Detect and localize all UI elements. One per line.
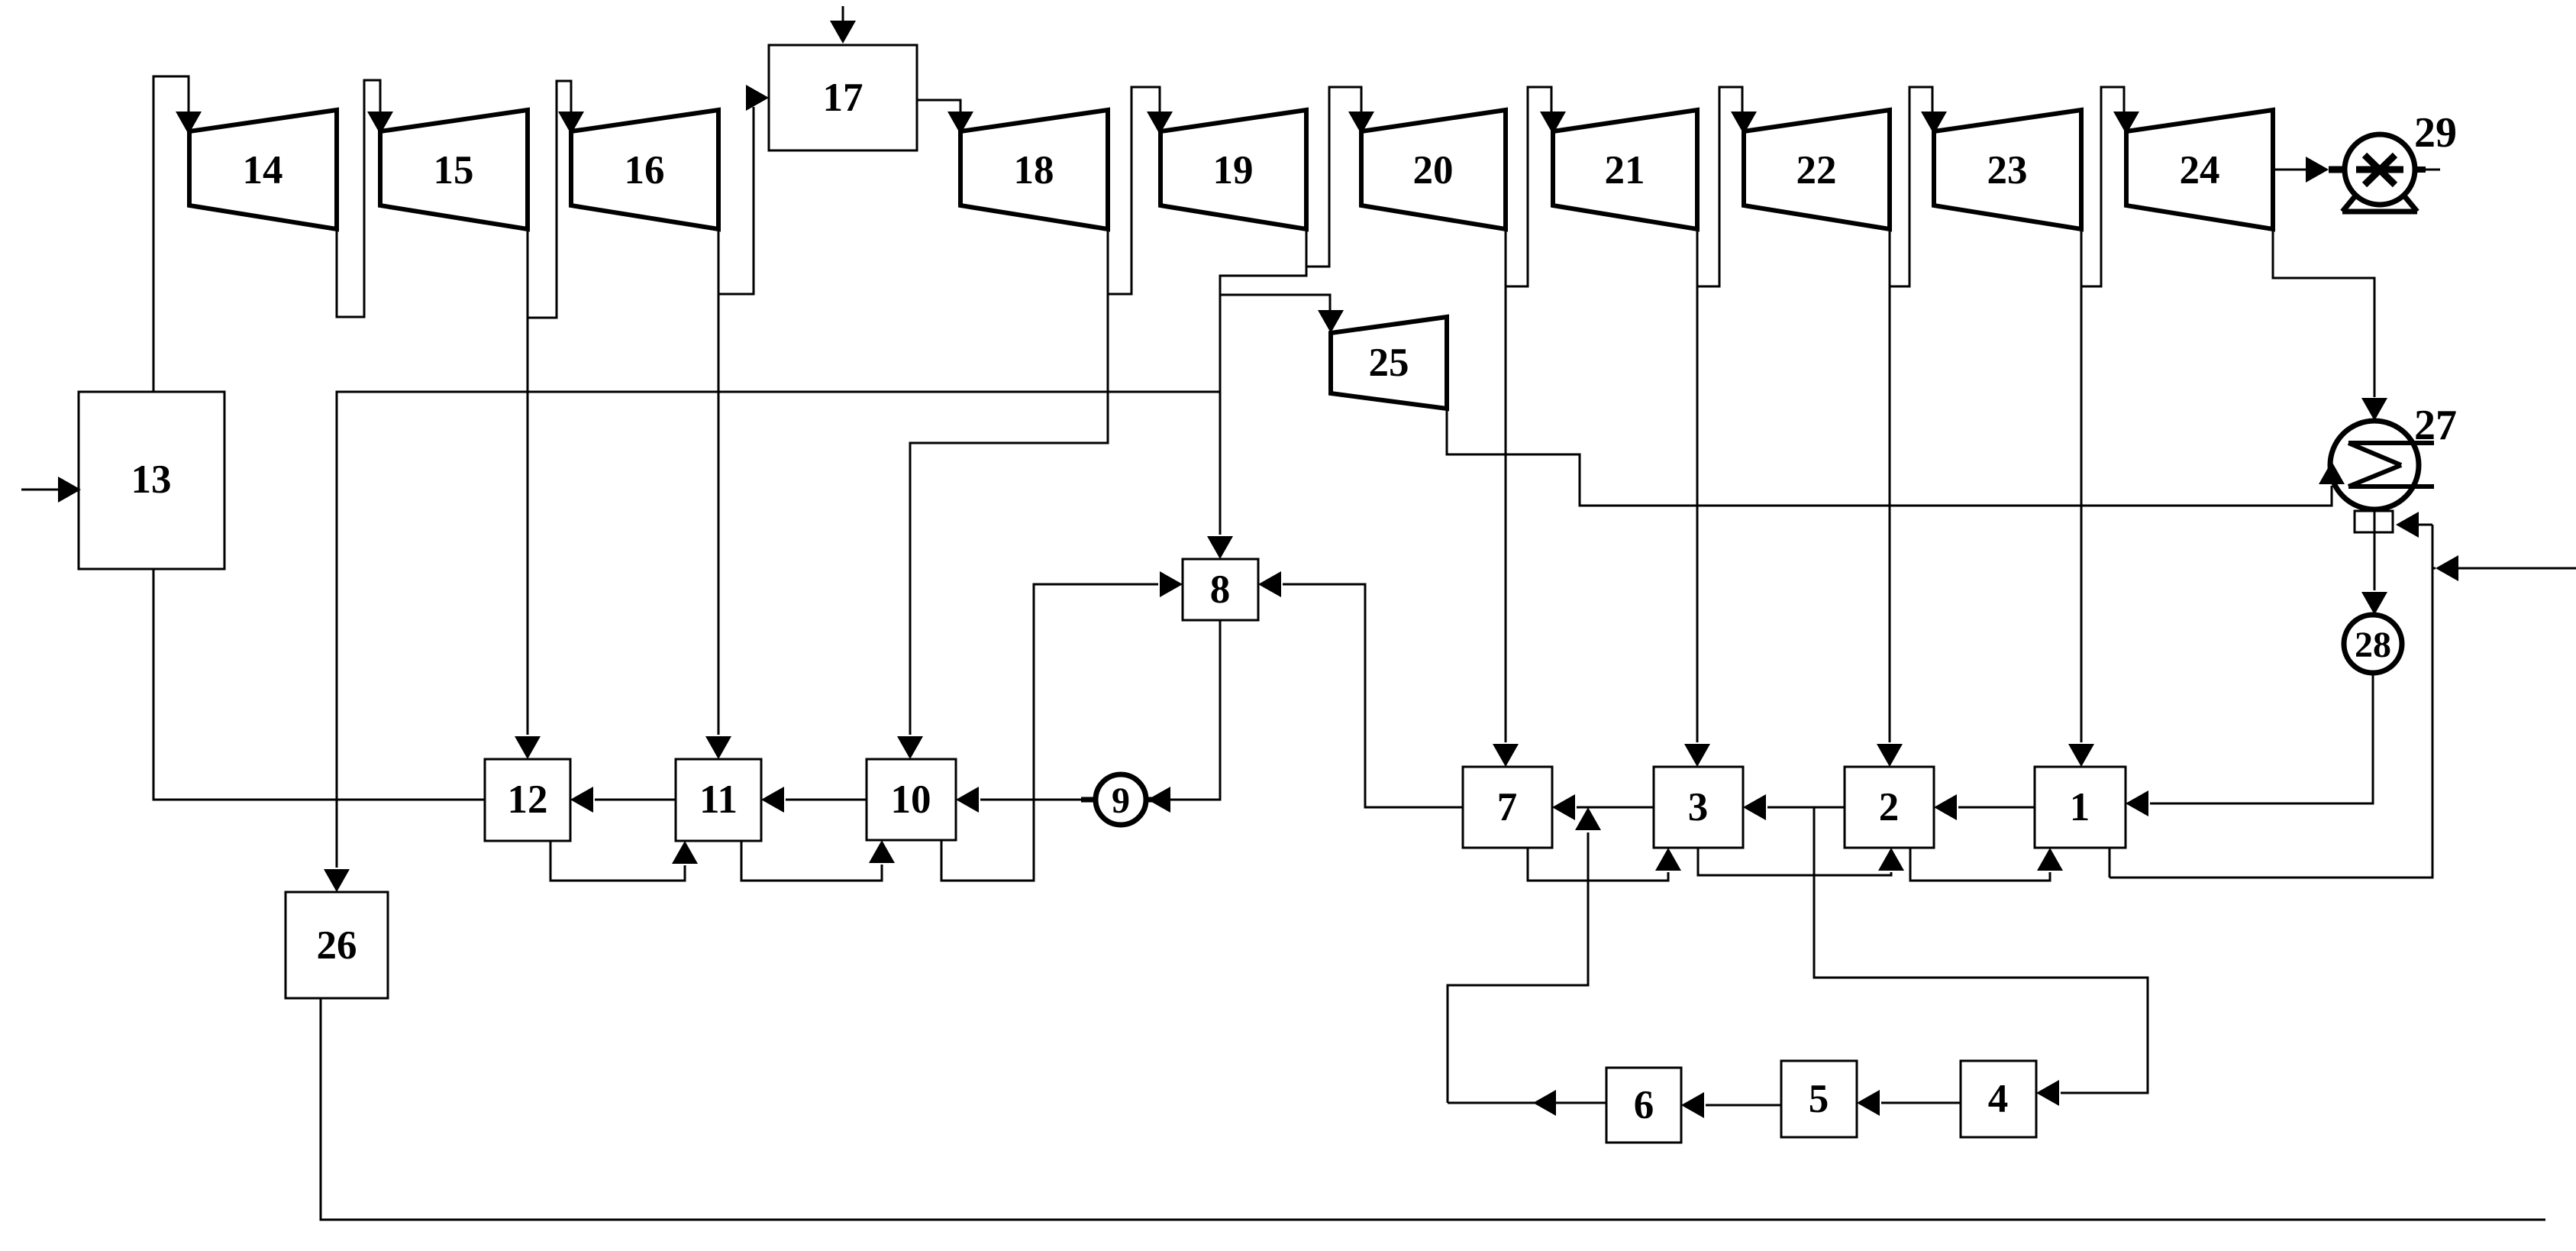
heat exchanger 27 (2330, 421, 2434, 509)
boiler 13 (79, 392, 224, 569)
label 29 (2414, 109, 2457, 157)
wire: 27 to 28 (2361, 532, 2387, 615)
turbine 24 (2126, 110, 2273, 229)
wire: heater 1 bottom leg (2109, 848, 2111, 878)
wire: 19 exhaust to 20 (1306, 87, 1374, 267)
wire: feedwater 10 to 11 (761, 787, 867, 813)
wire: pump 9 to 10 (956, 787, 1097, 813)
heater 8 (1183, 559, 1258, 620)
svg-text:15: 15 (434, 148, 474, 192)
wire: 28 to heater 1 (2126, 673, 2373, 816)
wire: feedwater 11 to 12 (570, 787, 676, 813)
turbine 14 (189, 110, 337, 229)
wire: heater 11 drain to 10 (741, 840, 895, 881)
wire: 15 exhaust to 16 (528, 81, 584, 318)
wire: heater 7 drain to 3 (1528, 848, 1681, 881)
wire: 6 outlet (1448, 1090, 1606, 1116)
turbine 21 (1553, 110, 1697, 229)
wire: feedwater 7 to 8 (1258, 571, 1463, 807)
wire: feedwater 12 to 13 (153, 569, 485, 800)
turbine 16 (571, 110, 718, 229)
wire: 14 exhaust to 15 (337, 80, 393, 317)
wire: 24 exhaust to 27 (2273, 229, 2387, 421)
heater 6 (1606, 1068, 1681, 1143)
wire: 21 exhaust to 22 (1697, 87, 1757, 286)
svg-text:20: 20 (1413, 148, 1454, 192)
svg-text:6: 6 (1634, 1083, 1654, 1127)
svg-text:10: 10 (891, 777, 931, 822)
wire: 8 to pump 9 (1146, 620, 1220, 813)
wire: 4 to 5 (1857, 1090, 1961, 1116)
wire: feedwater 1 to 2 (1934, 794, 2035, 820)
svg-text:23: 23 (1987, 148, 2028, 192)
drain box under 27 (2355, 509, 2393, 532)
reheater 17 (769, 45, 917, 150)
wire: tap to heater 4 (1814, 807, 2148, 1106)
wire: 23 exhaust to 24 (2081, 87, 2139, 286)
turbine 18 (960, 110, 1108, 229)
wire: 18 extraction to heater 10 (897, 294, 1108, 759)
wire: 22 extraction to heater 2 (1877, 229, 1903, 767)
svg-text:13: 13 (131, 457, 172, 502)
wire: 20 extraction to heater 7 (1493, 229, 1519, 767)
pump 28 (2344, 615, 2402, 673)
svg-text:21: 21 (1605, 148, 1645, 192)
svg-text:7: 7 (1497, 785, 1518, 829)
label 27 (2414, 402, 2457, 449)
svg-text:5: 5 (1809, 1077, 1829, 1121)
wire: feedwater 3 to 7 (1552, 794, 1654, 820)
wire: 16 exhaust to reheater 17 (718, 85, 769, 294)
svg-text:22: 22 (1796, 148, 1837, 192)
wire: feedwater inlet arrow into 13 (21, 477, 81, 503)
generator 29 (2342, 134, 2417, 212)
heater 1 (2035, 767, 2126, 848)
svg-text:14: 14 (243, 148, 283, 192)
heater 11 (676, 759, 761, 841)
heater 3 (1654, 767, 1743, 848)
wire: heater 12 drain to 11 (550, 841, 698, 881)
heater 4 (1961, 1061, 2036, 1137)
wire: 22 exhaust to 23 (1890, 87, 1947, 286)
svg-text:26: 26 (317, 923, 357, 968)
turbine 22 (1744, 110, 1890, 229)
wire: feedwater 2 to 3 (1743, 794, 1845, 820)
heater 2 (1845, 767, 1934, 848)
heater 5 (1781, 1061, 1857, 1137)
svg-text:11: 11 (699, 777, 738, 822)
turbine 20 (1361, 110, 1506, 229)
wire: external feed from right (2432, 555, 2576, 581)
svg-text:12: 12 (508, 777, 548, 822)
heater 10 (867, 759, 956, 840)
wire: hot reheat inlet into 17 top (830, 6, 856, 44)
turbine 25 (1331, 317, 1447, 409)
wire: 19 extraction to heater 8 (1207, 267, 1306, 559)
svg-text:8: 8 (1210, 567, 1231, 612)
wire: 20 exhaust to 21 (1506, 87, 1566, 286)
turbine 19 (1160, 110, 1306, 229)
svg-text:19: 19 (1213, 148, 1254, 192)
svg-text:2: 2 (1879, 785, 1900, 829)
wire: 24 shaft to generator 29 (2273, 157, 2440, 183)
svg-text:4: 4 (1988, 1077, 2009, 1121)
svg-text:17: 17 (823, 76, 864, 120)
wire: feed arrow into drain box (2396, 512, 2432, 538)
svg-text:3: 3 (1688, 785, 1709, 829)
wire: 21 extraction to heater 3 (1684, 229, 1710, 767)
heater 12 (485, 759, 570, 841)
wire: 18 exhaust to 19 (1108, 87, 1173, 294)
svg-text:16: 16 (625, 148, 665, 192)
svg-text:28: 28 (2355, 625, 2391, 665)
wire: heater 2 drain to 1 (1910, 848, 2063, 881)
heater 7 (1463, 767, 1552, 848)
svg-text:27: 27 (2414, 402, 2457, 449)
svg-text:1: 1 (2070, 785, 2090, 829)
svg-text:18: 18 (1014, 148, 1054, 192)
wire: 26 outfall line (321, 998, 2545, 1220)
turbine 15 (380, 110, 528, 229)
pump 9 (1096, 774, 1146, 825)
deaerator 26 (286, 892, 388, 998)
wire: 25 exhaust to 27 (1447, 409, 2345, 506)
wire: 16 extraction to heater 11 (705, 229, 731, 759)
wire: drain header to 26 (324, 392, 1220, 892)
svg-text:25: 25 (1369, 341, 1409, 385)
wire: 6 return riser (1448, 807, 1601, 1103)
wire: feed riser to heater 1 bottom (2110, 525, 2432, 878)
svg-text:29: 29 (2414, 109, 2457, 157)
turbine 23 (1934, 110, 2081, 229)
svg-text:9: 9 (1112, 781, 1130, 821)
wire: extraction branch to 25 (1220, 295, 1344, 333)
wire: 15 extraction to heater 12 (515, 229, 541, 759)
wire: 13 to 14 main steam (153, 76, 202, 392)
svg-text:24: 24 (2180, 148, 2220, 192)
wire: 17 to 18 (917, 100, 973, 134)
wire: 5 to 6 (1681, 1092, 1781, 1118)
wire: heater 3 drain to 2 (1698, 848, 1904, 875)
wire: 10 drain to 8 (941, 571, 1183, 881)
wire: 23 extraction to heater 1 (2068, 229, 2094, 767)
